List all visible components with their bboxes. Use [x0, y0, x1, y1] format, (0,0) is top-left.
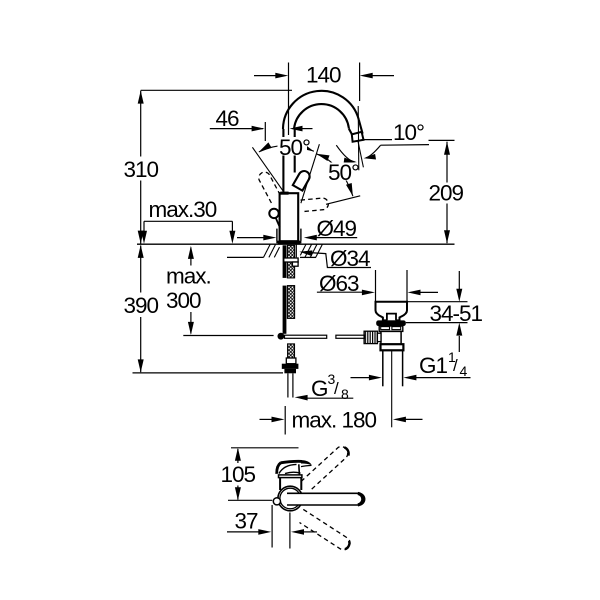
flex hose third segment: [288, 344, 295, 358]
dim max.30 right down arrow: [231, 221, 233, 232]
50deg leg L4 (horizontal dashed lever axis): [326, 196, 360, 205]
svg-text:max.: max.: [166, 264, 211, 289]
svg-text:310: 310: [124, 157, 159, 182]
riser pipe right edge: [294, 129, 296, 173]
dim 390 vertical line: [140, 246, 142, 293]
svg-text:10°: 10°: [393, 120, 424, 145]
dim 310 top arrow: [138, 91, 144, 104]
dim 37 line + arrows: [227, 531, 259, 533]
hood inner curve: [279, 464, 297, 473]
dim 310 bottom arrow: [138, 231, 144, 244]
37 left extension: [271, 505, 273, 548]
50deg#1 left arrow: [259, 142, 272, 152]
deck hatch right: [300, 244, 322, 257]
dim 209 arrows: [444, 142, 450, 155]
svg-text:209: 209: [429, 181, 464, 206]
body rect (plan): [280, 478, 301, 490]
body outer circle (plan): [278, 486, 303, 511]
dim 310 vertical line: [140, 91, 142, 157]
50deg#2 arc: [316, 154, 353, 196]
aerator: [352, 132, 364, 142]
105 top extension line: [231, 447, 299, 449]
drain knurled connector: [364, 331, 377, 343]
deck bottom line right: [300, 256, 316, 258]
50deg#2 bottom arrow: [346, 183, 353, 196]
dashed cap crescent up-right: [344, 447, 348, 455]
G3/8 collar: [286, 358, 296, 364]
dim max.300 bottom line: [183, 335, 273, 337]
svg-text:/: /: [334, 379, 339, 398]
hood top bar thick: [281, 461, 303, 462]
G3/8 nut bands: [282, 364, 299, 369]
dim 46 line + arrows: [210, 128, 263, 130]
linkage bar left part: [285, 335, 327, 338]
dim 390 bottom line: [133, 372, 284, 374]
dim 105 vertical: [237, 449, 239, 463]
solid lever capsule (plan): [287, 493, 365, 505]
overflow notch: [387, 314, 396, 321]
hook underside line: [301, 465, 312, 466]
svg-text:300: 300: [166, 288, 201, 313]
dim 140 line left: [254, 75, 277, 77]
G3/8 leader + arrow: [295, 395, 308, 401]
pull rod ball joint: [278, 333, 285, 340]
dim 140 left extension line: [288, 63, 290, 136]
svg-text:Ø34: Ø34: [330, 246, 370, 271]
34-51 top line: [407, 301, 467, 303]
svg-text:50°: 50°: [328, 160, 359, 185]
riser pipe left edge: [282, 129, 284, 193]
spout outer arc: [283, 91, 359, 129]
faucet body (front view): [280, 193, 299, 241]
dim G1 1/4 arrows: [351, 377, 371, 379]
pull-rod knob (plan): [273, 498, 280, 505]
hood right edge: [298, 464, 301, 475]
text knockout 50deg#2: [327, 163, 358, 181]
svg-text:46: 46: [216, 106, 240, 131]
deck bottom line left: [227, 256, 264, 258]
lever capsule thick right cap: [358, 493, 363, 505]
hood underside curve: [285, 472, 301, 473]
dashed lever up-left (front view): [259, 172, 282, 203]
dim Ø63 line + arrows: [317, 291, 363, 293]
10deg leader lines: [362, 139, 393, 141]
dashed cap crescent down-right: [345, 541, 350, 549]
dim max.180 left arrow: [260, 418, 273, 420]
spout inner arc: [294, 104, 349, 129]
10deg right arc + arrow: [366, 145, 381, 157]
deck / countertop top line: [137, 243, 455, 245]
collar (plan): [279, 475, 302, 478]
lever pivot black tab: [280, 192, 288, 195]
connection tube below G3/8: [287, 373, 289, 397]
50deg leg L3 (lever axis): [301, 144, 320, 203]
svg-text:max. 180: max. 180: [292, 408, 377, 433]
body base plate: [278, 243, 301, 245]
dim max.300 vertical line: [190, 248, 192, 266]
svg-text:4: 4: [460, 363, 468, 379]
deck hatch left: [264, 244, 280, 257]
pull rod upper segment: [283, 245, 287, 278]
37 right extension: [289, 513, 291, 549]
knob stem: [276, 218, 280, 227]
svg-text:140: 140: [306, 63, 341, 88]
34-51 bottom line: [406, 322, 468, 324]
svg-text:Ø49: Ø49: [317, 216, 357, 241]
svg-text:Ø63: Ø63: [319, 271, 359, 296]
dim max.30 left down arrow: [143, 221, 145, 232]
svg-text:G1: G1: [419, 353, 448, 378]
dim Ø49 line right + arrow: [304, 235, 317, 241]
dim max.30 line: [144, 220, 232, 222]
svg-text:max.30: max.30: [149, 197, 217, 222]
deck hole right edge: [295, 244, 297, 257]
dim 310 top extension line: [141, 89, 292, 91]
dashed lever down-right (plan): [300, 509, 351, 549]
pull rod lower segment: [283, 286, 287, 334]
Ø34 leader + arrow: [299, 250, 312, 256]
svg-text:37: 37: [235, 509, 259, 534]
spout outlet tube right line: [359, 119, 363, 133]
dim max.180 right arrow: [393, 417, 406, 423]
svg-text:34-51: 34-51: [430, 301, 483, 326]
svg-text:8: 8: [341, 386, 349, 402]
drain step: [381, 344, 404, 350]
drain main body: [381, 331, 401, 344]
linkage bar right part: [336, 335, 365, 338]
svg-text:/: /: [453, 356, 458, 375]
105 bottom extension line: [228, 499, 272, 501]
svg-text:105: 105: [221, 462, 256, 487]
dim Ø49 line left + arrow: [237, 237, 264, 239]
drain flange: [376, 302, 408, 321]
drain tabs band: [379, 326, 403, 331]
flex hose lower segment: [287, 286, 294, 319]
dashed lever up-right (plan): [301, 447, 348, 490]
hood hook tip black: [301, 460, 312, 465]
50deg#2 top arrow: [316, 154, 329, 161]
dashed lever horizontal-right (front view): [301, 198, 329, 212]
svg-text:G: G: [311, 376, 328, 401]
drain center line: [391, 351, 393, 427]
10deg vertical reference line: [357, 106, 360, 170]
hood left dome thick: [277, 463, 281, 474]
dim 140 right extension line: [359, 63, 361, 102]
50deg#1 arc: [259, 145, 314, 152]
dim 140 line right: [372, 75, 394, 77]
dim 34-51 arrows: [458, 271, 460, 289]
gasket black band: [376, 320, 406, 326]
body base flange sides: [276, 229, 278, 241]
50deg#1 right arrow: [301, 143, 314, 151]
50deg leg L1 (up-left dashed lever axis): [252, 147, 282, 190]
svg-text:50°: 50°: [279, 135, 310, 160]
solid lever (front view): [293, 171, 310, 191]
locknut: [284, 258, 298, 262]
body inner circle (plan): [280, 488, 301, 509]
10deg spout axis line: [358, 141, 364, 167]
10deg left arc + arrow: [336, 145, 354, 162]
body base thick line: [276, 241, 301, 244]
spout outlet tube left line: [349, 129, 352, 135]
text knockout 50deg#1: [278, 137, 358, 181]
drain Ø63 extension lines: [375, 270, 377, 301]
pull-rod knob (front view): [269, 209, 278, 218]
flex hose upper segment: [287, 245, 294, 278]
svg-text:390: 390: [124, 293, 159, 318]
drain tailpipe: [382, 350, 384, 386]
dim 209 vertical line: [446, 142, 448, 183]
dim max.180 left extension: [284, 406, 286, 435]
